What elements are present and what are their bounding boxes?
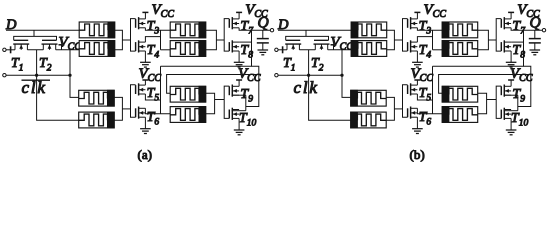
wire line B to memristor M7: [167, 75, 259, 94]
wire T2 drain lead to memristor M2: [328, 49, 352, 51]
wire T8 drain: [239, 41, 251, 43]
wire M1 M2 outputs to T3 T4 gate: [115, 30, 123, 50]
wire T7 T8 gate line: [496, 19, 501, 52]
wire T3 drain to M5: [145, 28, 170, 30]
wire T1 source lead with bar: [6, 49, 15, 51]
wire middle node down to memristor M4: [37, 50, 79, 121]
wire M3 M4 outputs to T5 T6 gate: [386, 97, 394, 120]
transistor T6: [408, 107, 418, 119]
wire D rail: [6, 29, 80, 31]
transistor T5: [408, 83, 418, 95]
ground at T10: [238, 118, 240, 130]
wire gate bridge of T1 T2: [14, 36, 57, 40]
transistor T6: [136, 107, 146, 119]
wire T7 drain to Q: [239, 28, 270, 30]
transistor T1: [285, 40, 301, 50]
wire M7 M8 outputs to T9 T10 gate: [478, 93, 487, 114]
ground at T4: [144, 51, 146, 62]
wire T9 T10 gate line: [224, 86, 229, 118]
wire line B to memristor M7: [439, 75, 531, 94]
wire T4 drain: [145, 37, 160, 43]
transistor T7: [229, 17, 239, 29]
transistor T4: [408, 40, 418, 52]
junction clk / middle branch: [307, 74, 310, 77]
transistor T5: [136, 83, 146, 95]
wire D drop to T1 T2 gates: [33, 30, 35, 36]
wire line A from T5 T6 output: [161, 65, 252, 67]
transistor T3: [408, 17, 418, 29]
transistor T1: [13, 40, 29, 50]
wire T5 T6 gate line: [403, 85, 408, 118]
transistor T2: [314, 40, 330, 50]
transistor T3: [136, 17, 146, 29]
wire M5 M6 outputs to T7 T8 gate: [478, 30, 489, 50]
wire M5 M6 outputs to T7 T8 gate: [206, 30, 217, 50]
wire T2 drain lead to memristor M2: [56, 49, 80, 51]
power Vcc at T5: [144, 80, 146, 85]
ground at T8: [510, 51, 512, 62]
power Vcc at T2: [61, 45, 63, 50]
memristor M4: [351, 112, 387, 128]
node clk terminal: [3, 74, 6, 77]
memristor M2: [351, 41, 387, 57]
power Vcc at T9: [510, 80, 512, 86]
wire T3 T4 gate line: [131, 19, 136, 52]
wire T6 drain to M8: [417, 108, 442, 113]
wire clk rail: [278, 74, 342, 76]
wire T3 T4 gate line: [403, 19, 408, 52]
wire T6 drain to M8: [145, 108, 170, 113]
memristor M6: [442, 41, 478, 57]
power Vcc at T9: [238, 80, 240, 86]
memristor M3: [351, 90, 387, 106]
wire T1-T2 middle node: [299, 49, 315, 51]
wire inverter T5T6 output node: [432, 66, 434, 113]
capacitor CL at Q: [534, 30, 536, 38]
wire line A from T5 T6 output: [433, 65, 524, 67]
memristor M8: [442, 107, 478, 123]
wire T9 T10 gate line: [496, 86, 501, 118]
memristor M7: [442, 86, 478, 102]
wire T4 drain: [417, 37, 432, 43]
memristor M4: [79, 112, 115, 128]
memristor M8: [170, 107, 206, 123]
junction clk / M2-M3 branch: [68, 74, 71, 77]
wire T1-T2 middle node: [27, 49, 43, 51]
wire T9 T10 output node: [504, 94, 518, 96]
ground at T6: [144, 117, 146, 129]
wire T8 drain: [511, 41, 523, 43]
node clk terminal: [275, 74, 278, 77]
wire gate bridge of T1 T2: [286, 36, 329, 40]
wire M1 M2 outputs to T3 T4 gate: [387, 30, 395, 50]
wire T7 drain to Q: [511, 28, 542, 30]
transistor T7: [501, 17, 511, 29]
wire Q feedback down to T9 T10 output: [246, 30, 259, 106]
node T1 input terminal: [3, 48, 6, 51]
svg-text:(b): (b): [410, 147, 425, 162]
capacitor CL at Q: [262, 30, 264, 38]
memristor M7: [170, 86, 206, 102]
ground at CL: [258, 50, 269, 55]
wire middle node down to memristor M4: [309, 50, 351, 121]
memristor M3: [79, 90, 115, 106]
ground at T8: [238, 51, 240, 62]
wire inverter T3T4 output node: [160, 30, 162, 50]
wire T1 source lead with bar: [278, 49, 287, 51]
wire M3 M4 outputs to T5 T6 gate: [114, 97, 122, 120]
transistor T8: [229, 40, 239, 52]
wire T5 drain: [417, 94, 432, 100]
memristor M5: [442, 22, 478, 38]
junction clk / middle branch: [35, 74, 38, 77]
wire Q feedback down to T9 T10 output: [518, 30, 531, 106]
junction clk / M2-M3 branch: [340, 74, 343, 77]
wire inverter T3T4 output node: [432, 30, 434, 50]
wire T5 T6 gate line: [131, 85, 136, 118]
transistor T8: [501, 40, 511, 52]
wire M2 lead down to memristor M3: [342, 50, 351, 98]
svg-text:Q: Q: [530, 15, 541, 32]
wire T3 drain to M5: [417, 28, 442, 30]
ground at T6: [416, 117, 418, 129]
transistor T4: [136, 40, 146, 52]
wire D rail: [278, 29, 352, 31]
ground at T4: [416, 51, 418, 62]
wire T9 T10 output node: [232, 94, 246, 96]
transistor T2: [42, 40, 58, 50]
ground at T10: [510, 118, 512, 130]
wire M7 M8 outputs to T9 T10 gate: [206, 93, 215, 114]
wire inverter T5T6 output node: [160, 66, 162, 113]
memristor M1: [79, 22, 115, 38]
power Vcc at T7: [238, 12, 240, 19]
power Vcc at T3: [144, 12, 146, 19]
node T1 input terminal: [275, 48, 278, 51]
svg-text:(a): (a): [138, 147, 152, 162]
transistor T9: [229, 85, 239, 97]
wire T5 drain: [145, 94, 160, 100]
svg-text:Q: Q: [258, 15, 269, 32]
transistor T9: [501, 85, 511, 97]
power Vcc at T2: [333, 45, 335, 50]
wire M2 lead down to memristor M3: [70, 50, 79, 98]
wire D drop to T1 T2 gates: [305, 30, 307, 36]
transistor T10: [501, 108, 511, 120]
memristor M6: [170, 41, 206, 57]
power Vcc at T5: [416, 80, 418, 85]
memristor M2: [79, 41, 115, 57]
power Vcc at T7: [510, 12, 512, 19]
memristor M5: [170, 22, 206, 38]
wire T7 T8 gate line: [224, 19, 229, 52]
ground at CL: [530, 50, 541, 55]
transistor T10: [229, 108, 239, 120]
wire clk rail: [6, 74, 70, 76]
svg-text:clk: clk: [294, 78, 319, 97]
power Vcc at T3: [416, 12, 418, 19]
memristor M1: [351, 22, 387, 38]
